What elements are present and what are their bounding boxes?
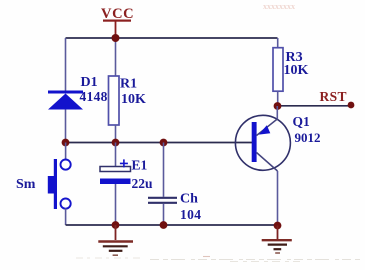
node ground-right junction (274, 222, 282, 230)
svg-text:D1: D1 (81, 75, 98, 90)
wire mid rail (66, 142, 253, 144)
node mid-R1 junction (112, 139, 120, 147)
wire R1 top (115, 38, 117, 76)
svg-text:10K: 10K (121, 92, 146, 107)
power VCC label (101, 6, 134, 38)
diode D1 (48, 91, 83, 110)
wire R3 top (277, 38, 279, 48)
node RST junction (274, 102, 282, 110)
node VCC junction (112, 34, 120, 42)
svg-text:10K: 10K (284, 63, 309, 78)
capacitor E1 electrolytic (100, 143, 131, 226)
node mid-left junction (62, 139, 70, 147)
watermark bottom (76, 257, 362, 262)
wire diode top (65, 38, 67, 91)
transistor Q1 (235, 106, 290, 171)
wire RST (278, 105, 352, 107)
svg-text:Sm: Sm (16, 177, 36, 192)
watermark top (263, 2, 295, 11)
node RST end (348, 102, 355, 109)
ground right (262, 226, 292, 254)
svg-text:9012: 9012 (295, 130, 321, 145)
resistor R1 (109, 76, 120, 125)
svg-text:Q1: Q1 (293, 114, 311, 129)
switch Sm (48, 143, 71, 226)
wire R1 bottom (115, 125, 117, 143)
wire R3 bottom (277, 91, 279, 106)
label Q1 value (293, 114, 321, 145)
svg-text:E1: E1 (132, 158, 148, 173)
ground left (98, 225, 133, 255)
label D1 value (80, 75, 108, 104)
capacitor Ch (148, 143, 177, 226)
svg-text:22u: 22u (132, 176, 154, 191)
svg-text:104: 104 (180, 207, 201, 222)
wire diode bottom (65, 110, 67, 143)
label R1 value (120, 77, 146, 108)
label R3 value (284, 50, 309, 78)
svg-text:R1: R1 (120, 77, 137, 92)
resistor R3 (273, 48, 283, 91)
label E1 value (132, 158, 154, 191)
svg-text:xxxxxxxx: xxxxxxxx (263, 2, 295, 11)
svg-text:Ch: Ch (180, 192, 198, 207)
label Ch value (180, 192, 201, 223)
node mid-Ch junction (160, 139, 168, 147)
node bottom-E1 junction (112, 221, 120, 229)
svg-text:RST: RST (320, 89, 347, 104)
wire VCC top rail (66, 37, 278, 39)
svg-text:4148: 4148 (80, 89, 108, 104)
wire collector down (277, 171, 279, 226)
node bottom-Ch junction (160, 221, 168, 229)
wire bottom rail (66, 224, 278, 226)
